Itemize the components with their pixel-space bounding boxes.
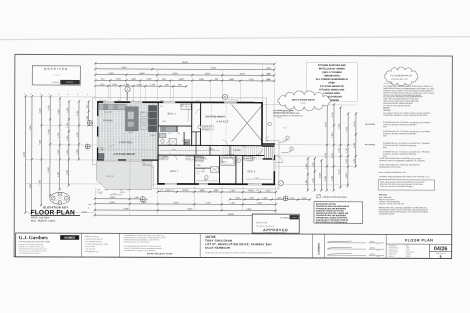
disclaimer cell [124,234,166,252]
garage entry door arc [196,109,201,114]
wc bath [237,158,240,163]
scanner paper edge line [0,37,470,40]
elevation marker A [125,87,130,101]
notes paragraph 1 [383,85,435,97]
bed4 robe box [181,104,191,109]
notes mid paragraphs [379,157,425,162]
bed4 door arc [181,141,186,146]
sheet border [14,54,452,258]
vanity [195,156,203,161]
garage door opening [224,102,237,104]
revision table rows [327,241,384,258]
window tag clusters under deck [88,189,260,210]
elevation marker left upper [87,120,92,125]
elevation marker E bottom right [283,196,288,201]
bed1 door arc [172,155,177,160]
entry door arc [257,149,263,155]
right wall tag circles [268,122,294,153]
RECEIVED stamp box [32,66,80,85]
leader squiggles [108,136,269,169]
bedroom wardrobes [159,156,168,160]
elevation marker C [278,181,283,186]
island bench [125,107,138,131]
left extension lines [25,97,156,213]
bed2 door arc [247,156,253,162]
garage dashed truss lines [211,104,226,144]
bottom dimension ticks and labels [94,190,311,217]
mid vertical dim lines [308,158,322,190]
right dimension ticks and labels [306,103,357,191]
wir shelving [196,169,206,174]
scan noise overlay [15,55,452,258]
shower [211,167,219,173]
eaves width cloud [278,91,331,111]
room labels [103,113,256,173]
HWC unit [184,140,190,145]
laundry door arc [166,141,170,145]
right dimension lines [327,104,356,190]
ens door arc [202,168,207,173]
notes cloud top right [385,67,418,86]
bath door arc [228,155,233,160]
garage slab note [202,125,214,130]
porch walls [262,145,274,147]
elevation key symbol [50,192,70,204]
elevation marker B [140,197,145,202]
left dimension ticks and labels [23,95,89,214]
building consultants cell [85,235,108,253]
top dimension lines [95,63,274,86]
garage cross brace [231,104,262,142]
wc ensuite [205,175,208,180]
porch steps [264,146,274,159]
top dimension ticks and labels [94,61,275,87]
entry tiled floor [222,144,261,160]
bottom extension lines [96,185,276,217]
eaves outline [92,97,279,189]
underfloor heating legend [317,195,347,199]
left tier top tags [24,93,90,96]
fridge pantry [148,105,156,131]
interior annotation marks [100,104,269,167]
wind zone box [378,180,435,190]
top wall sill labels [99,99,238,103]
bath tub [221,157,235,165]
garage door note [273,109,304,117]
interior dim strings [160,108,272,181]
front door arc [275,156,282,163]
earthworks notice [314,202,363,224]
elevation marker left lower [85,144,90,149]
left dimension lines [25,96,88,213]
bathroom vanity and wc mid plan [159,133,166,138]
top extension lines [96,63,275,143]
notes paragraph 2 [383,95,423,105]
approved stamp [252,214,299,234]
galley boxes [141,112,148,117]
kitchen note box [306,62,357,102]
store nook walls [192,132,201,146]
interior walls [158,103,275,185]
garage internal door arc [222,140,227,145]
deck centreline [129,150,131,196]
elevation marker D [223,94,228,99]
windows [97,101,276,185]
exterior walls [97,101,276,185]
window tags [99,116,287,195]
hall closet walls [196,146,230,155]
title block frame [16,233,452,258]
deck [96,161,152,190]
laundry bench [160,126,177,132]
bottom dimension lines [95,191,310,215]
fireplace [99,153,104,158]
kitchen bench [99,104,126,110]
right extension lines [263,105,356,185]
ceiling dashed lines [98,149,157,151]
kitchen dining lounge tiled floor [98,103,157,160]
